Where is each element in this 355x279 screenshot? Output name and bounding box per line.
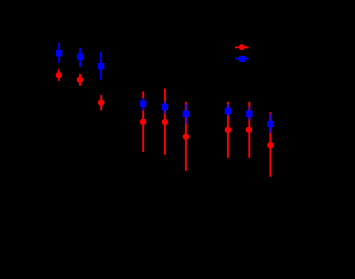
red circle marker 7 <box>225 127 231 133</box>
red circle marker 4 <box>140 119 146 125</box>
red errorbar series point 4 <box>142 92 144 153</box>
red circle marker 6 <box>183 133 189 139</box>
red circle marker 2 <box>77 77 83 83</box>
blue errorbar series point 2 <box>79 48 81 67</box>
blue square marker 9 <box>267 121 273 127</box>
blue square marker 7 <box>225 108 231 114</box>
blue square marker 1 <box>56 50 62 56</box>
blue errorbar series point 3 <box>100 52 102 80</box>
blue square marker 4 <box>140 101 146 107</box>
red errorbar series point 5 <box>164 89 166 155</box>
red errorbar series point 8 <box>248 102 250 158</box>
red circle marker 8 <box>246 127 252 133</box>
legend blue entry square <box>239 56 245 62</box>
legend blue entry line <box>235 58 249 60</box>
legend red entry circle <box>239 44 245 50</box>
blue square marker 2 <box>77 54 83 60</box>
red circle marker 9 <box>267 142 273 148</box>
blue errorbar series point 4 <box>142 98 144 111</box>
red circle marker 1 <box>56 72 62 78</box>
blue errorbar series point 6 (overlaps red bar) <box>185 104 187 124</box>
blue square marker 6 <box>183 111 189 117</box>
red errorbar series point 1 <box>58 69 60 81</box>
red errorbar series point 3 <box>100 95 102 110</box>
legend red entry line <box>235 46 249 48</box>
blue errorbar series point 1 <box>58 43 60 63</box>
red errorbar series point 9 <box>269 112 271 177</box>
red errorbar series point 6 <box>185 102 187 171</box>
blue square marker 8 <box>246 111 252 117</box>
red errorbar series point 7 <box>227 102 229 158</box>
blue square marker 3 <box>98 63 104 69</box>
blue errorbar series point 9 (overlaps red bar) <box>269 114 271 133</box>
red circle marker 3 <box>98 99 104 105</box>
blue errorbar series point 5 (overlaps red bar) <box>164 101 166 114</box>
red errorbar series point 2 <box>79 74 81 86</box>
blue errorbar series point 7 (overlaps red bar) <box>227 104 229 117</box>
red circle marker 5 <box>162 119 168 125</box>
blue square marker 5 <box>162 104 168 110</box>
blue errorbar series point 8 (overlaps red bar) <box>248 107 250 121</box>
